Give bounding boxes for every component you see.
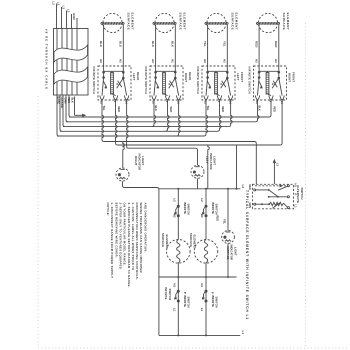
svg-text:BEFORE REMOVING WIRE COVER.: BEFORE REMOVING WIRE COVER. (114, 203, 118, 258)
typical infinite switch lower at x=178.3 (177, 277, 179, 335)
svg-text:AND DANGEROUS OPERATION.: AND DANGEROUS OPERATION. (143, 203, 147, 253)
svg-text:RED: RED (248, 185, 251, 190)
svg-text:L2: L2 (52, 1, 56, 5)
svg-text:H2: H2 (200, 214, 204, 218)
svg-text:INDICATOR: INDICATOR (137, 154, 141, 172)
svg-text:L2: L2 (241, 185, 245, 189)
svg-text:LIGHT: LIGHT (212, 156, 216, 165)
wire to right indicator lamp (123, 142, 125, 168)
svg-text:H1: H1 (172, 284, 176, 288)
svg-text:RED: RED (67, 98, 71, 104)
wire lamp DS2 down (197, 179, 199, 189)
svg-text:3- SERVICER PLEASE RETURN DIAG: 3- SERVICER PLEASE RETURN DIAGRAM TO RAN… (127, 203, 131, 288)
svg-text:4- CAUTION: LABEL ALL WIRES PR: 4- CAUTION: LABEL ALL WIRES PRIOR TO (131, 203, 135, 272)
svg-text:ELEMENT: ELEMENT (235, 13, 239, 31)
arrow to L3 (273, 163, 275, 185)
junction dots bottom bus (177, 334, 179, 336)
svg-text:ON YOUR PARTICULAR MODEL RANGE: ON YOUR PARTICULAR MODEL RANGE. (123, 203, 127, 267)
svg-text:1- DISCONNECT RANGE FROM POWER: 1- DISCONNECT RANGE FROM POWER SUPPLY (110, 203, 114, 279)
svg-text:ELEMENT: ELEMENT (193, 235, 197, 249)
infinite switch S4 (254, 66, 287, 100)
wire E1 to switch (left) (103, 25, 105, 66)
infinite switch S3 (202, 66, 235, 100)
distribution lines to lamps and lower circuit (102, 100, 256, 185)
svg-text:LEFT: LEFT (236, 73, 240, 81)
typical infinite switch upper at x=178.3 (177, 189, 179, 240)
typical circuit mid bus (159, 276, 237, 278)
svg-text:WHT: WHT (169, 107, 173, 113)
svg-text:L1: L1 (241, 331, 245, 335)
svg-text:ELEMENT: ELEMENT (286, 13, 290, 31)
svg-text:#8 RE THROUGH BX CABLE: #8 RE THROUGH BX CABLE (45, 29, 49, 90)
svg-text:GND: GND (72, 13, 76, 20)
svg-text:L1: L1 (200, 308, 204, 312)
chassis ground arrow (74, 97, 76, 116)
wire top bus to surface indicator lamp (227, 189, 229, 231)
svg-text:SURFACE: SURFACE (179, 13, 183, 31)
surface element E3 (207, 13, 226, 32)
svg-text:BLK: BLK (71, 98, 75, 104)
svg-text:RIGHT: RIGHT (184, 73, 188, 82)
svg-text:SWITCH: SWITCH (187, 297, 191, 308)
svg-text:INFINITE SWITCH: INFINITE SWITCH (196, 67, 200, 94)
svg-text:BLK: BLK (171, 41, 175, 48)
svg-text:H1: H1 (119, 59, 123, 63)
svg-text:H1: H1 (274, 59, 278, 63)
svg-text:YEL: YEL (203, 41, 207, 47)
svg-text:INFINITE: INFINITE (211, 202, 215, 214)
svg-text:ELEMENT: ELEMENT (131, 13, 135, 31)
svg-text:NOTICE:: NOTICE: (106, 203, 110, 217)
svg-text:H1: H1 (200, 284, 204, 288)
svg-text:INFINITE: INFINITE (183, 295, 187, 307)
svg-text:LIGHT: LIGHT (233, 247, 237, 256)
svg-text:LEFT: LEFT (205, 156, 209, 164)
wire E2 to switch (left) (155, 25, 157, 66)
svg-text:2- REFER ONLY TO FEATURES EQUI: 2- REFER ONLY TO FEATURES EQUIPPED (119, 203, 123, 270)
svg-text:TYPICAL SURFACE ELEMENT WITH I: TYPICAL SURFACE ELEMENT WITH INFINITE SW… (245, 190, 249, 320)
junction dots top bus (177, 188, 179, 190)
svg-text:P: P (183, 292, 187, 294)
svg-text:RED: RED (117, 107, 121, 113)
svg-text:ALTERNATE: ALTERNATE (296, 185, 300, 203)
svg-text:SWITCH: SWITCH (300, 188, 304, 200)
svg-text:H2: H2 (99, 59, 103, 63)
supply wires L2 L1 L2 L1 GND into TB1 (56, 4, 58, 29)
typical circuit top bus L2 (159, 188, 240, 190)
svg-text:INFINITE: INFINITE (183, 202, 187, 214)
svg-text:SWITCH: SWITCH (187, 204, 191, 215)
svg-text:LIGHT: LIGHT (141, 156, 145, 165)
svg-text:INFINITE: INFINITE (164, 287, 168, 299)
svg-text:L1: L1 (57, 2, 61, 6)
svg-text:INFINITE SWITCH: INFINITE SWITCH (247, 67, 251, 94)
switch exit wires to buses (152, 100, 156, 127)
svg-text:WIRING PROBLEMS CAN CAUSE IMPR: WIRING PROBLEMS CAN CAUSE IMPROPER (139, 203, 143, 273)
svg-text:SWITCH: SWITCH (168, 289, 172, 301)
svg-text:INFINITE: INFINITE (211, 295, 215, 307)
typical circuit bottom bus L1 (159, 334, 240, 336)
svg-text:DISCONNECTION WHEN SERVICING C: DISCONNECTION WHEN SERVICING CONTROLS. (135, 203, 139, 281)
svg-text:SWITCH: SWITCH (214, 297, 218, 308)
svg-text:FRONT: FRONT (291, 72, 295, 82)
typical infinite switch upper at x=206.0 (205, 189, 207, 240)
wire E4 to switch (right) (278, 25, 280, 66)
svg-text:H2: H2 (151, 59, 155, 63)
svg-text:L2: L2 (172, 199, 176, 203)
svg-text:SWITCH: SWITCH (214, 204, 218, 215)
svg-text:BLK: BLK (151, 41, 155, 48)
junction dots mid bus (177, 276, 179, 278)
svg-text:SURFACE: SURFACE (161, 233, 165, 247)
svg-text:YEL: YEL (223, 219, 227, 224)
svg-text:INFINITE SWITCH: INFINITE SWITCH (92, 67, 96, 94)
svg-text:RED: RED (272, 107, 276, 113)
svg-text:BARE: BARE (57, 97, 61, 105)
surface element E4 (258, 13, 277, 32)
svg-text:H2: H2 (172, 214, 176, 218)
svg-text:SURFACE: SURFACE (282, 13, 286, 31)
wire E1 to switch (right) (122, 25, 124, 66)
terminal block TB1 (54, 29, 89, 96)
wire E4 to switch (left) (258, 25, 260, 66)
svg-text:H1: H1 (171, 59, 175, 63)
svg-text:RED: RED (255, 41, 259, 47)
typical surface element at x=178.3 (167, 240, 191, 264)
svg-text:RED: RED (216, 216, 220, 222)
svg-text:GRN: GRN (64, 98, 68, 104)
wire E3 to switch (right) (226, 25, 228, 66)
svg-text:BLU: BLU (99, 41, 103, 47)
wire to typical circuit at 207.8 (208, 145, 210, 189)
main harness bus lines (69, 116, 269, 118)
svg-text:BLU: BLU (119, 41, 123, 47)
wire lamp DS3 to mid bus (227, 243, 229, 277)
typical infinite switch lower at x=206.0 (205, 277, 207, 335)
svg-text:RED: RED (274, 41, 278, 47)
svg-text:INDICATOR: INDICATOR (209, 153, 213, 171)
typical surface element at x=206.0 (194, 240, 218, 264)
svg-text:YEL: YEL (223, 41, 227, 47)
svg-text:REAR: REAR (136, 72, 140, 80)
infinite switch S1 (98, 66, 131, 100)
svg-text:FRONT: FRONT (240, 72, 244, 82)
svg-text:L1: L1 (67, 9, 71, 13)
svg-text:GROUND: GROUND (60, 97, 64, 109)
svg-text:LEFT: LEFT (132, 73, 136, 81)
surface indicator light DS3 (222, 231, 235, 244)
svg-text:H1: H1 (223, 59, 227, 63)
svg-text:H2: H2 (255, 59, 259, 63)
svg-text:SURFACE: SURFACE (127, 13, 131, 31)
svg-text:RIGHT: RIGHT (288, 73, 292, 82)
surface element E1 (103, 13, 122, 32)
svg-text:ELEMENT: ELEMENT (183, 13, 187, 31)
fold mark bottom (faint dotted) (38, 347, 348, 349)
infinite switch S2 (150, 66, 183, 100)
svg-text:L2: L2 (200, 199, 204, 203)
fold mark right (faint dotted) (305, 23, 307, 348)
right indicator light DS1 (116, 168, 129, 181)
svg-text:ELEMENT: ELEMENT (165, 235, 169, 249)
svg-text:L2: L2 (62, 6, 66, 10)
wire lamp DS1 down (123, 181, 159, 335)
wires from TB1 to buses (57, 95, 59, 136)
svg-text:RED: RED (221, 107, 225, 113)
svg-text:SURFACE: SURFACE (231, 13, 235, 31)
svg-text:SURFACE: SURFACE (189, 233, 193, 247)
svg-text:REAR: REAR (188, 72, 192, 80)
left indicator light DS2 (191, 165, 204, 178)
svg-text:H2: H2 (203, 59, 207, 63)
fold mark left (faint dotted) (37, 96, 39, 348)
alternate switch (253, 184, 294, 209)
svg-text:INFINITE SWITCH: INFINITE SWITCH (144, 67, 148, 94)
svg-text:INDICATOR: INDICATOR (230, 245, 234, 261)
svg-text:GRN: GRN (248, 203, 251, 209)
svg-text:P: P (211, 292, 215, 294)
wire E2 to switch (right) (174, 25, 176, 66)
svg-text:L1: L1 (172, 308, 176, 312)
surface element E2 (155, 13, 174, 32)
svg-text:RIGHT: RIGHT (134, 156, 138, 166)
wire E3 to switch (left) (207, 25, 209, 66)
